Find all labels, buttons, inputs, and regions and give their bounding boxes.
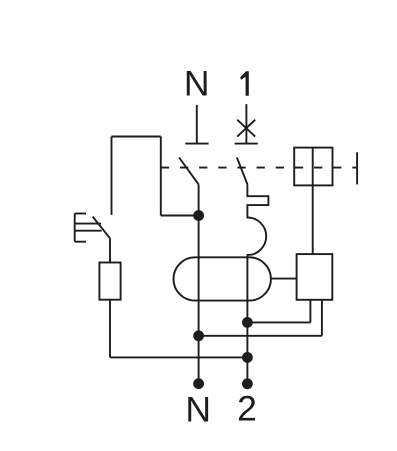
test resistor: [99, 263, 120, 300]
junction node pole1 / relay left: [242, 317, 253, 328]
svg-text:N: N: [184, 63, 210, 103]
neutral conductor through toroid: [198, 216, 200, 384]
toroid secondary output wire: [271, 278, 297, 280]
manual actuator bar: [356, 152, 358, 184]
test push-button contact: [75, 214, 110, 263]
overcurrent release element and conductor loop through toroid (pole 1): [247, 184, 268, 383]
junction node pole1 / test wire: [242, 352, 253, 363]
terminal N top: [185, 105, 208, 144]
wire from mechanism to trip relay: [312, 185, 314, 254]
wire from N-pole junction left: [161, 215, 199, 217]
current transformer toroid: [174, 257, 271, 300]
mechanism box (latch): [294, 148, 332, 186]
terminal N bottom node: [193, 378, 204, 389]
terminal 1 top with X (breaking-capacity cross): [235, 104, 258, 144]
junction node neutral / relay right: [193, 330, 204, 341]
trip relay box: [297, 254, 333, 300]
switch contact pole 1: [237, 158, 248, 185]
svg-text:N: N: [185, 389, 211, 429]
wire up-left loop to test button: [112, 137, 161, 216]
label 1 (top terminal): [240, 71, 249, 96]
terminal 2 bottom node: [242, 378, 253, 389]
svg-text:2: 2: [237, 389, 257, 429]
switch contact N pole: [179, 158, 199, 216]
mechanical coupling dashed line: [161, 167, 357, 169]
wire from test resistor to pole-1 conductor: [110, 300, 247, 358]
relay right pin wire to neutral conductor: [199, 300, 322, 336]
junction node on N pole: [193, 210, 204, 221]
relay left pin wire to pole-1 conductor: [247, 300, 310, 323]
